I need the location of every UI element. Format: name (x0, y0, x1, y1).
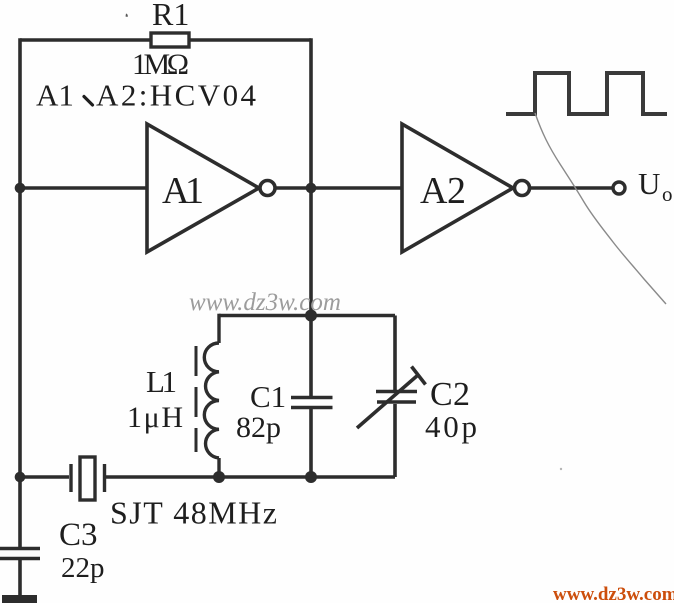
wire tank top (219, 314, 395, 318)
node junction A1 input (15, 183, 26, 194)
scan speck (126, 14, 128, 18)
svg-text:1MΩ: 1MΩ (132, 48, 189, 81)
variable capacitor C2 (357, 367, 426, 429)
node junction inductor bottom (213, 471, 225, 483)
op-amp A2 (inverter triangle) (402, 124, 513, 252)
wire mid vertical feedback (309, 38, 313, 396)
node junction C1 bottom (305, 471, 317, 483)
svg-text:A1: A1 (36, 78, 74, 113)
svg-text:www.dz3w.com: www.dz3w.com (553, 584, 674, 603)
ground (2, 595, 37, 603)
wire mid vertical below C1 (309, 409, 313, 477)
wire A1 output to A2 input (275, 186, 402, 190)
svg-text:1μH: 1μH (127, 401, 183, 434)
wire bottom rail left (20, 475, 69, 479)
svg-text:A2: A2 (420, 170, 466, 212)
wire A2 output (530, 186, 612, 190)
svg-text:82p: 82p (236, 411, 281, 444)
crystal SJT 48MHz (71, 457, 105, 500)
wire C3 lower lead (18, 560, 22, 596)
svg-text:U: U (638, 166, 660, 201)
svg-text:R1: R1 (152, 0, 189, 32)
node junction A1 output (306, 183, 317, 194)
svg-text:A2:HCV04: A2:HCV04 (96, 78, 257, 113)
bubble A2 output (515, 181, 530, 196)
wire left rail (18, 38, 22, 477)
wire bottom rail right (106, 475, 395, 479)
wire A1 input (20, 186, 147, 190)
svg-text:o: o (662, 182, 673, 206)
svg-text:C1: C1 (250, 379, 286, 414)
wire C3 upper lead (18, 477, 22, 547)
node junction bottom left (15, 472, 26, 483)
inductor L1 (204, 314, 219, 477)
svg-text:L1: L1 (146, 364, 177, 399)
capacitor C3 (0, 549, 40, 559)
scan crease curve (535, 113, 666, 304)
node junction tank top (305, 310, 317, 322)
bubble A1 output (260, 181, 275, 196)
svg-text:A1: A1 (162, 170, 204, 212)
inductor L1 core dashes (195, 346, 198, 452)
wire top-left horizontal to resistor (20, 38, 151, 42)
svg-text:C3: C3 (59, 517, 98, 553)
resistor R1 (151, 33, 189, 47)
faint scan speck (560, 468, 562, 470)
capacitor C1 (291, 398, 333, 408)
wire resistor to right corner (189, 38, 311, 42)
svg-text:22p: 22p (61, 552, 105, 584)
square wave symbol (506, 73, 667, 114)
op-amp A1 (inverter triangle) (147, 124, 259, 252)
label A1 A2 HCV04 (36, 78, 257, 113)
wire right branch upper (393, 316, 397, 391)
wire right branch lower (393, 404, 397, 477)
svg-text:SJT 48MHz: SJT 48MHz (110, 495, 277, 531)
svg-text:40p: 40p (425, 409, 477, 444)
node output terminal Uo (613, 182, 625, 194)
svg-text:C2: C2 (430, 376, 470, 413)
svg-text:www.dz3w.com: www.dz3w.com (189, 289, 341, 316)
